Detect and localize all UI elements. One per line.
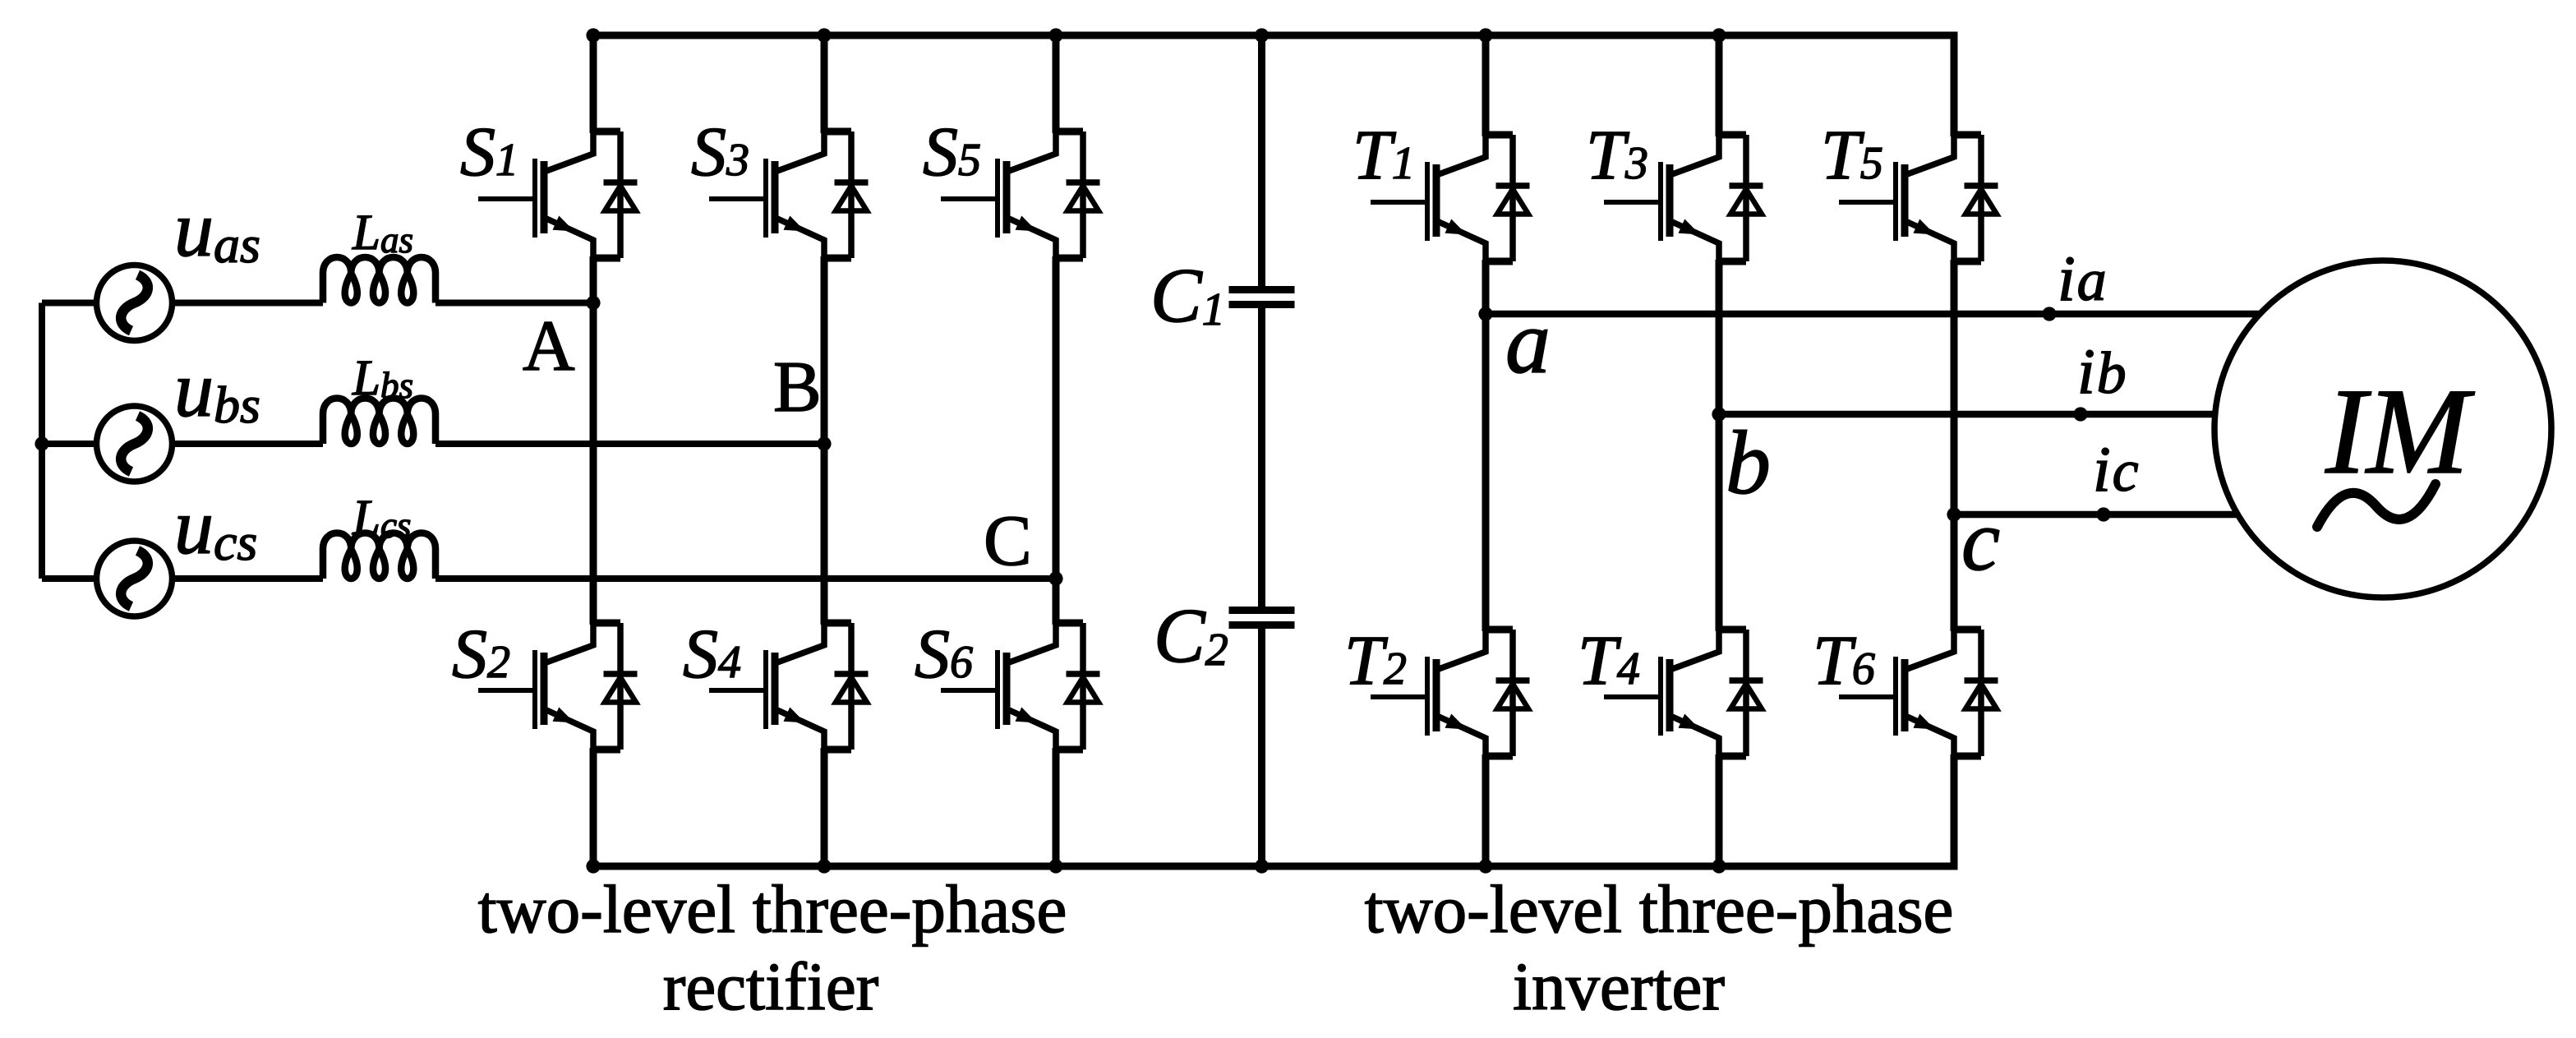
svg-text:two-level three-phase: two-level three-phase: [478, 871, 1067, 947]
junction top bus leg A: [586, 28, 600, 42]
junction bottom bus leg b: [1712, 859, 1726, 873]
wire S4 emitter to bottom bus: [821, 748, 828, 866]
junction top bus leg b: [1712, 28, 1726, 42]
svg-text:S5: S5: [923, 112, 981, 191]
svg-text:S3: S3: [691, 112, 749, 191]
node a: [1478, 307, 1492, 321]
svg-text:ib: ib: [2077, 335, 2127, 407]
wire leg top bus to S3: [821, 35, 828, 133]
wire from left bus to source ubs: [42, 441, 97, 447]
svg-text:C2: C2: [1154, 593, 1228, 679]
IGBT T3 with antiparallel diode: [1604, 133, 1763, 263]
wire source ucs to inductor Lcs: [173, 575, 324, 582]
wire from left bus to source ucs: [42, 575, 97, 582]
wire phase c to motor: [1954, 511, 2239, 519]
wire T6 emitter to bottom bus: [1951, 754, 1958, 866]
node B: [817, 436, 831, 450]
AC voltage source ubs: [97, 406, 173, 482]
svg-text:ic: ic: [2093, 433, 2139, 505]
svg-text:S4: S4: [683, 614, 741, 693]
wire bottom DC bus (-): [593, 754, 1954, 866]
svg-text:IM: IM: [2325, 363, 2475, 500]
wire T4 emitter to bottom bus: [1716, 754, 1723, 866]
wire phase b to motor: [1719, 411, 2216, 418]
inductor Las: [323, 257, 435, 303]
svg-text:S2: S2: [452, 614, 510, 693]
wire T2 emitter to bottom bus: [1482, 754, 1490, 866]
wire leg top bus to S5: [1053, 35, 1060, 133]
junction top bus leg B: [817, 28, 831, 42]
wire S1 emitter to S2 collector through node A: [590, 256, 597, 625]
AC voltage source uas: [97, 265, 173, 341]
IGBT T1 with antiparallel diode: [1371, 133, 1530, 263]
svg-text:Lcs: Lcs: [352, 491, 411, 546]
svg-text:S6: S6: [915, 614, 973, 693]
wire top bus to C1: [1258, 35, 1265, 289]
IGBT S5 with antiparallel diode: [941, 130, 1100, 260]
wire top DC bus (+): [593, 35, 1954, 136]
motor AC tilde symbol: [2317, 484, 2435, 527]
svg-text:c: c: [1961, 492, 2000, 588]
wire S3 emitter to S4 collector through node B: [821, 256, 828, 625]
inductor Lcs: [323, 533, 435, 579]
svg-text:B: B: [773, 348, 822, 427]
junction current ib measuring point: [2073, 407, 2087, 421]
junction bottom bus leg B: [817, 859, 831, 873]
svg-text:C: C: [984, 501, 1032, 581]
capacitor C1: [1229, 290, 1295, 305]
wire S6 emitter to bottom bus: [1053, 748, 1060, 866]
junction top bus capacitor leg: [1255, 28, 1269, 42]
junction top bus leg C: [1048, 28, 1062, 42]
IGBT T2 with antiparallel diode: [1371, 628, 1530, 758]
wire source uas to inductor Las: [173, 300, 324, 307]
svg-text:ia: ia: [2058, 242, 2107, 314]
svg-text:T6: T6: [1813, 620, 1875, 699]
node A: [586, 296, 600, 310]
svg-text:ubs: ubs: [174, 345, 260, 434]
svg-text:a: a: [1505, 292, 1551, 392]
svg-text:T3: T3: [1586, 115, 1648, 194]
IGBT S3 with antiparallel diode: [709, 130, 869, 260]
wire leg top bus to T5: [1951, 35, 1958, 136]
junction current ia measuring point: [2042, 307, 2056, 321]
svg-text:ucs: ucs: [174, 482, 257, 571]
wire C1 to C2: [1258, 305, 1265, 611]
wire leg top bus to T3: [1716, 35, 1723, 136]
node c: [1947, 507, 1961, 521]
svg-text:T4: T4: [1578, 620, 1640, 699]
wire S5 emitter to S6 collector through node C: [1053, 256, 1060, 625]
wire leg top bus to S1: [590, 35, 597, 133]
junction bottom bus leg A: [586, 859, 600, 873]
IGBT S4 with antiparallel diode: [709, 621, 869, 751]
svg-text:S1: S1: [460, 112, 518, 191]
wire left vertical bus joining sources: [39, 303, 45, 579]
svg-text:b: b: [1726, 413, 1771, 513]
wire T5 emitter to T6 collector through node c: [1951, 260, 1958, 631]
svg-text:inverter: inverter: [1513, 948, 1725, 1024]
svg-text:two-level three-phase: two-level three-phase: [1365, 871, 1954, 947]
IGBT T6 with antiparallel diode: [1839, 628, 1998, 758]
node C: [1048, 571, 1062, 585]
svg-text:C1: C1: [1150, 253, 1225, 339]
svg-text:T2: T2: [1344, 620, 1407, 699]
node b: [1712, 407, 1726, 421]
IGBT T5 with antiparallel diode: [1839, 133, 1998, 263]
junction left bus / ubs: [35, 436, 48, 450]
IGBT T4 with antiparallel diode: [1604, 628, 1763, 758]
svg-text:T1: T1: [1353, 115, 1415, 194]
wire C2 to bottom bus: [1258, 625, 1265, 866]
IGBT S1 with antiparallel diode: [478, 130, 638, 260]
junction current ic measuring point: [2096, 507, 2110, 521]
svg-text:Las: Las: [352, 205, 413, 261]
wire leg top bus to T1: [1482, 35, 1490, 136]
wire inductor Lcs to node C: [435, 575, 1056, 582]
IGBT S2 with antiparallel diode: [478, 621, 638, 751]
junction top bus leg a: [1478, 28, 1492, 42]
junction bottom bus capacitor leg: [1255, 859, 1269, 873]
inductor Lbs: [323, 399, 435, 445]
svg-text:T5: T5: [1821, 115, 1883, 194]
wire T3 emitter to T4 collector through node b: [1716, 260, 1723, 631]
junction bottom bus leg C: [1048, 859, 1062, 873]
wire inductor Lbs to node B: [435, 441, 824, 447]
capacitor C2: [1229, 611, 1295, 625]
wire phase a to motor: [1486, 311, 2260, 318]
svg-text:A: A: [523, 307, 575, 386]
wire inductor Las to node A: [435, 300, 593, 307]
svg-text:rectifier: rectifier: [663, 948, 879, 1024]
svg-text:Lbs: Lbs: [352, 351, 413, 406]
wire from left bus to source uas: [42, 300, 97, 307]
induction motor IM circle: [2214, 261, 2551, 597]
wire T1 emitter to T2 collector through node a: [1482, 260, 1490, 631]
svg-text:uas: uas: [174, 185, 260, 274]
junction bottom bus leg a: [1478, 859, 1492, 873]
IGBT S6 with antiparallel diode: [941, 621, 1100, 751]
wire S2 emitter to bottom bus: [590, 748, 597, 866]
AC voltage source ucs: [97, 541, 173, 616]
wire source ubs to inductor Lbs: [173, 441, 324, 447]
